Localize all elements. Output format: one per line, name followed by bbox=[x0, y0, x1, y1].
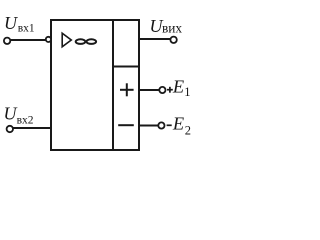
wire input 1 bbox=[9, 39, 46, 41]
wire output bbox=[139, 38, 171, 40]
op-amp block U1 body bbox=[51, 20, 139, 150]
terminal -E2 bbox=[158, 122, 164, 128]
terminal Uvx1 bbox=[4, 38, 10, 44]
power section divider bbox=[113, 66, 139, 68]
svg-text:E: E bbox=[172, 77, 184, 97]
label U_vx2 bbox=[4, 104, 34, 127]
svg-text:вх2: вх2 bbox=[17, 115, 34, 127]
label U_vx1 bbox=[4, 13, 35, 35]
label -E2 bbox=[167, 113, 191, 137]
minus sign power bbox=[118, 124, 134, 126]
terminal Uvx2 bbox=[7, 126, 13, 132]
svg-text:вх1: вх1 bbox=[18, 23, 35, 35]
svg-text:U: U bbox=[4, 13, 18, 33]
wire +E1 bbox=[139, 89, 159, 91]
amplifier triangle bbox=[62, 33, 71, 47]
inversion bubble input 1 bbox=[46, 37, 51, 42]
label +E1 bbox=[167, 77, 191, 99]
terminal +E1 bbox=[159, 87, 165, 93]
wire input 2 bbox=[12, 127, 53, 129]
svg-text:E: E bbox=[172, 113, 184, 133]
terminal Uvyh bbox=[170, 37, 176, 43]
plus sign power bbox=[120, 83, 134, 96]
svg-text:1: 1 bbox=[184, 85, 190, 99]
svg-text:U: U bbox=[4, 104, 18, 124]
label U_vyh bbox=[150, 16, 183, 36]
wire -E2 bbox=[139, 125, 158, 127]
power section partition bbox=[112, 20, 114, 150]
svg-text:вих: вих bbox=[162, 21, 182, 36]
infinity gain symbol bbox=[76, 39, 96, 44]
svg-text:2: 2 bbox=[185, 123, 191, 137]
